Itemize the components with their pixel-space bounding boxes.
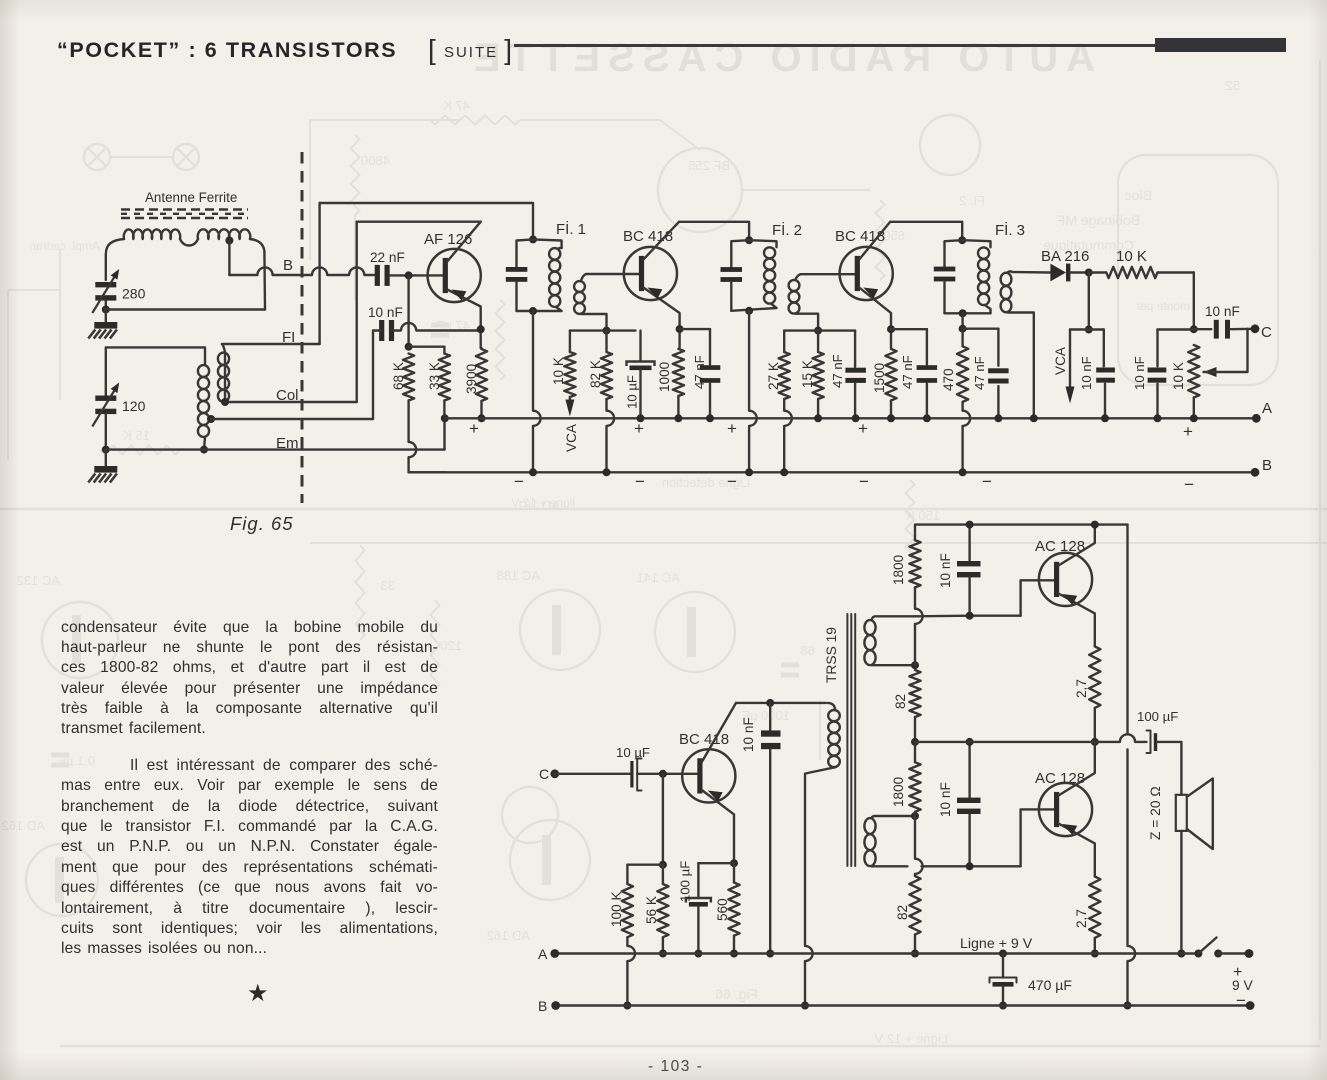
VCA arrow stage1 [569,397,571,405]
FI3 capacitor [934,267,956,272]
transistor BC 418 (FI-2) [840,247,893,300]
terminal A [1252,414,1261,423]
AC128-2 emitter lead [1059,824,1095,877]
wire 27K to minus bus [783,399,785,411]
AC128-2 collector lead [1059,742,1095,796]
FI1 bottom joining wire [517,307,562,311]
wire FI vertical to top rail [318,203,320,344]
TRSS19 primary bottom lead [805,767,836,946]
svg-text:−: − [982,472,992,491]
resistor 10 K volume potentiometer [1188,345,1199,398]
FI3 primary coil [962,240,990,247]
oscillator coil secondary [218,353,229,365]
capacitor 47 nF stage2 emitter [926,329,928,364]
svg-text:Fİ. 1: Fİ. 1 [556,220,586,238]
svg-text:560: 560 [715,898,730,921]
node secondary bottom [911,661,919,669]
svg-text:100 µF: 100 µF [678,861,693,902]
svg-text:+: + [469,419,479,438]
capacitor 47 nF stage2 base [854,331,856,367]
svg-text:BC 418: BC 418 [679,731,729,748]
wire A rail / Ligne +9V [555,952,1199,954]
svg-text:280: 280 [122,286,146,302]
resistor 82 lower [909,876,920,935]
secondary2 bottom lead to AC128-2 base [872,865,908,867]
capacitor 10 nF osc [379,320,384,341]
wire top rail to FI1 [320,203,533,239]
wire emitter junction left [698,862,734,864]
node 470uF tap [999,950,1007,958]
wire divider horizontal [627,864,663,866]
TRSS19 primary coil [828,703,835,710]
FI3 bottom wire [945,312,991,314]
wire 68K down to minus bus [407,401,409,443]
terminal C [1251,324,1260,333]
wire top rail amplifier [915,525,1128,541]
svg-text:47 nF: 47 nF [830,354,845,388]
node detector bias [959,325,967,333]
FI3 top node [958,236,966,244]
wire 470 to minus bus [961,402,963,411]
AC128-1 collector lead [1059,525,1095,566]
FI2 vertical to minus bus [748,311,750,411]
svg-text:68 K: 68 K [391,362,406,390]
svg-text:−: − [1236,991,1246,1010]
secondary2 top lead [872,816,916,818]
FI3 secondary bottom lead [1008,313,1034,419]
wire speaker to supply rail [1180,831,1182,954]
node base bias BC418-2 [814,327,822,335]
svg-text:B: B [283,257,293,274]
variable capacitor 280 [95,282,116,287]
FI1 secondary coil [574,281,585,292]
svg-text:15 K: 15 K [800,360,815,388]
resistor 2,7 lower [1089,877,1100,938]
resistor 82 upper [909,670,920,717]
wire mid bus (speaker feed) [915,741,1120,743]
AF126 emitter arrow [452,290,467,301]
antenna ferrite rod [121,208,248,210]
wire FI line [222,344,225,402]
wire FI3 node down [961,313,963,328]
transistor AF 126 [428,249,481,302]
node secondary2 top [911,812,919,820]
svg-text:B: B [538,998,547,1014]
wire bias node horizontal stage2 [784,329,855,331]
svg-text:C: C [539,766,549,782]
wire base junction down [662,774,664,865]
svg-text:−: − [727,472,737,491]
resistor 1800 lower [909,762,920,812]
secondary bottom lead [872,664,916,666]
node osc coil bottom to Col [221,398,229,406]
svg-text:27 K: 27 K [766,362,781,390]
capacitor 10 nF push-pull lower [968,742,970,798]
wire bias to 47nF-3 [963,328,999,330]
node AGC junction [1085,326,1093,334]
wire switch to battery terminal [1218,952,1249,954]
resistor 470 [961,329,963,347]
FI1 primary coil [533,239,562,248]
wire tap down to B line [228,241,230,276]
resistor 68 K [403,354,414,401]
svg-text:Antenne Ferrite: Antenne Ferrite [145,190,237,205]
transistor AC 128 upper [1039,553,1092,606]
FI2 bottom node [745,307,753,315]
resistor 33 K [439,354,450,401]
switch [1194,950,1202,958]
wire junction down to divider [407,275,409,346]
svg-text:Z = 20 Ω: Z = 20 Ω [1148,786,1163,840]
wire Col line [225,401,357,403]
terminal A bottom [550,949,559,958]
svg-text:+: + [727,419,737,438]
svg-text:82 K: 82 K [588,360,603,388]
FI2 secondary top lead to BC418-2 base [796,274,856,280]
FI3 bottom node [959,309,967,317]
node detector output [1085,269,1093,277]
node 3900 plus [478,414,486,422]
node BC418-1 emitter junction [676,325,684,333]
figure label [230,513,294,535]
wire Col vertical [356,222,358,402]
wire junction down to ground [105,310,107,323]
wire down to ground G2 [105,450,107,466]
TRSS19 core [846,614,848,866]
capacitor 10 nF to C output [1194,328,1212,330]
resistor 27 K [783,331,785,352]
capacitor 10 uF input electrolytic [630,761,633,788]
wire BC418-1 collector rail [679,222,749,240]
svg-text:22 nF: 22 nF [370,250,405,265]
resistor 15 K [817,331,819,352]
terminal B bottom [551,1001,560,1010]
svg-text:- 103 -: - 103 - [648,1058,703,1075]
capacitor 47 nF stage1 [709,329,711,364]
wire B line [229,274,257,276]
wire 100K to B rail (hops A rail) [626,937,628,946]
FI1 bottom node [529,307,537,315]
wire Em rise to plus bus [443,418,445,449]
wire C to coupling cap [555,773,631,775]
terminal B [1251,468,1260,477]
resistor 3900 [480,348,482,349]
svg-text:10 nF: 10 nF [1132,356,1147,390]
wire tap to 82 lower (hops coil lead) [914,816,916,859]
svg-text:+: + [1183,422,1193,441]
FI1 cap bottom lead [515,282,517,311]
svg-text:470: 470 [941,368,956,391]
svg-text:Fİ. 3: Fİ. 3 [995,221,1025,239]
TRSS19 secondary coil bottom [864,818,875,834]
wire cap280 bottom to junction [105,301,107,310]
variable capacitor 120 [95,396,116,401]
resistor 1500 [885,349,896,401]
FI3 secondary top lead [1008,271,1051,272]
wire 10K right vertical [1193,273,1195,329]
diode BA 216 [1050,264,1066,282]
transistor BC 418 (FI-1) [624,247,677,300]
node Em left [102,446,110,454]
potentiometer wiper arrow [1204,367,1217,377]
AF126 collector lead [447,222,481,262]
FI1 vertical to minus bus [532,311,534,411]
svg-text:10 nF: 10 nF [1205,304,1240,319]
resistor 1800 upper [909,540,920,587]
resistor 100 K [626,865,628,884]
wire emitter junction to 47nF-2 [891,328,927,330]
svg-text:10 nF: 10 nF [741,717,756,752]
svg-text:1000: 1000 [657,361,672,392]
ground G1 [94,322,117,329]
capacitor 10 nF push-pull upper [968,525,970,561]
svg-text:10 nF: 10 nF [1079,356,1094,390]
thick header bar [1155,38,1286,52]
wire antenna left lead [106,239,124,280]
wire cap to speaker [1157,742,1181,795]
FI2 top node [745,236,753,244]
svg-text:82: 82 [895,905,910,920]
svg-text:A: A [1262,400,1272,417]
node emitter junction AF [730,859,738,867]
svg-text:10 nF: 10 nF [938,782,953,817]
svg-text:10 K: 10 K [551,357,566,385]
svg-text:10 µF: 10 µF [625,375,640,409]
wire osc primary bottom to Em [204,437,205,450]
node oscillator tap [207,415,215,423]
node antenna tap [225,237,233,245]
svg-text:Col: Col [276,387,299,404]
node 10nF tap [766,699,774,707]
wire cap120 bottom [105,414,107,450]
node bias divider [659,861,667,869]
svg-text:1500: 1500 [872,362,887,393]
svg-text:VCA: VCA [1053,346,1068,375]
svg-text:120: 120 [122,398,146,414]
svg-text:−: − [859,472,869,491]
FI1 secondary top lead to BC418 base [581,274,640,281]
node below cap 280 [102,306,110,314]
capacitor 470 uF electrolytic [1002,954,1004,978]
transistor AC 128 lower [1039,783,1092,836]
svg-text:Em: Em [276,435,299,452]
capacitor 10 uF electrolytic stage1 [639,331,641,362]
wire B rail [556,1004,1250,1006]
capacitor 10 nF AGC-1 [1103,330,1105,367]
svg-text:33 K: 33 K [427,362,442,390]
resistor 10 K detector (horizontal) [1089,271,1107,273]
svg-text:FI: FI [282,329,295,346]
svg-text:A: A [538,946,548,962]
wire 10nF right lead [392,329,401,331]
wire cap to base [637,773,700,775]
resistor 2,7 upper [1089,646,1100,708]
transistor BC 418 (AF) [682,749,735,802]
wire emitter junction to 47nF [680,328,710,330]
BC418-AF emitter lead [702,790,734,863]
svg-text:C: C [1261,324,1272,341]
wire plus bus (VCA supply rail) [445,417,1257,419]
svg-text:47 nF: 47 nF [972,356,987,390]
wire main right vertical [1126,525,1128,735]
resistor 10 K (VCA feed) [569,331,571,352]
VCA arrow detector [1069,330,1071,392]
wire divider top to 33K [409,346,445,348]
svg-text:47 nF: 47 nF [900,355,915,389]
node plus bus start [441,414,449,422]
AC128-1 emitter lead [1059,594,1095,647]
wire antenna right lead [250,239,265,310]
svg-text:BA 216: BA 216 [1041,248,1089,265]
node emitter 10nF junction [477,325,485,333]
wire 82K to minus bus [605,399,607,411]
svg-text:47 nF: 47 nF [692,355,707,389]
svg-text:100 µF: 100 µF [1137,709,1178,724]
svg-text:10 K: 10 K [1116,248,1147,265]
svg-text:Fİ. 2: Fİ. 2 [772,221,802,239]
BC418-AF collector lead [702,703,736,762]
thin header rule [514,44,1160,47]
FI1 cap branch [517,239,534,267]
wire junction to antenna right leg [106,308,265,310]
svg-text:Ligne + 9 V: Ligne + 9 V [960,936,1033,952]
ground G2 [94,466,117,473]
node BC418-2 emitter junction [887,325,895,333]
node divider top [405,343,413,351]
svg-text:−: − [1184,475,1194,494]
node mid bus left [911,738,919,746]
capacitor 10 nF AGC-2 [1156,330,1158,367]
wire Em line [106,448,445,450]
wire AGC junction horizontal [1070,328,1104,330]
node Em coil junction [200,446,208,454]
svg-text:470 µF: 470 µF [1028,977,1072,993]
wire collector rail AF [736,702,826,704]
svg-text:1800: 1800 [891,776,906,807]
svg-text:VCA: VCA [564,423,579,452]
resistor 56 K [662,865,664,884]
wire detector node down [1088,273,1090,330]
svg-text:★: ★ [247,980,269,1007]
node base bias junction [405,271,413,279]
svg-text:10 nF: 10 nF [368,305,403,320]
svg-text:10 µF: 10 µF [616,745,650,760]
TRSS19 secondary coil top [864,620,875,635]
FI3 cap branch [945,240,963,266]
svg-text:−: − [514,472,524,491]
svg-text:1800: 1800 [891,554,906,585]
secondary top lead to AC128-1 base [872,616,916,620]
svg-text:+: + [858,419,868,438]
svg-text:B: B [1262,457,1272,474]
wire bias node horizontal [570,329,636,331]
svg-text:−: − [635,472,645,491]
svg-text:82: 82 [893,694,908,709]
FI1 secondary bottom lead [581,314,607,331]
svg-text:56 K: 56 K [644,896,659,924]
FI3 secondary coil [1001,273,1012,286]
capacitor 100 uF emitter electrolytic [697,863,699,898]
wire 22nF to base junction [390,274,445,276]
BC418-1 collector lead [643,222,679,260]
BC418-2 collector lead [859,222,890,260]
svg-text:10 nF: 10 nF [938,553,953,588]
wire oscillator tap line [211,418,373,420]
node base bias BC418-1 [603,327,611,335]
svg-text:2,7: 2,7 [1074,909,1089,928]
dashed separator line [301,152,304,503]
FI2 secondary bottom lead [796,314,819,331]
svg-text:TRSS 19: TRSS 19 [824,627,839,683]
svg-text:2,7: 2,7 [1074,679,1089,698]
AF126 emitter lead [447,290,481,349]
capacitor 10 nF collector [769,703,771,730]
svg-text:100 K: 100 K [609,891,624,927]
antenna coil L1a [124,229,180,239]
BC418-2 emitter lead [859,288,891,349]
oscillator coil primary [198,365,209,377]
wire 33K bottom to plus bus [443,401,445,419]
resistor 82 K [605,331,607,352]
wire 3900 to plus bus [480,401,482,418]
FI2 primary coil [749,240,776,247]
wire osc primary top [106,347,205,395]
node collector top rail [1091,521,1099,529]
header title [57,38,397,63]
capacitor 100 uF output electrolytic [1147,731,1151,754]
node volume top [1190,325,1198,333]
resistor 1000 [673,349,684,396]
wire collector rail AF126 [357,220,481,222]
FI2 cap branch [731,240,749,267]
header suite tag [428,32,514,64]
wire between antenna coils [180,239,198,246]
svg-text:3900: 3900 [464,363,479,394]
node base junction BC418-AF [659,770,667,778]
resistor 560 [733,863,735,882]
wire minus bus [409,471,1255,473]
FI2 secondary coil [789,280,800,291]
wire BC418-2 collector rail [890,222,962,240]
terminal C bottom [550,769,559,778]
FI1 capacitor [506,267,528,272]
capacitor 47 nF stage3 [997,329,999,366]
antenna coil L1b [198,229,251,239]
speaker Z = 20 ohms [1176,795,1187,831]
capacitor 22 nF [375,265,380,286]
BC418-1 emitter lead [643,288,679,349]
FI2 capacitor [721,267,743,272]
wire 10nF left lead [373,331,381,420]
wire volume node horizontal [1158,328,1194,330]
FI1 transformer top node [529,235,537,243]
svg-text:10 K: 10 K [1171,362,1186,390]
wire 1800 to tap (hops coil lead) [914,587,916,608]
